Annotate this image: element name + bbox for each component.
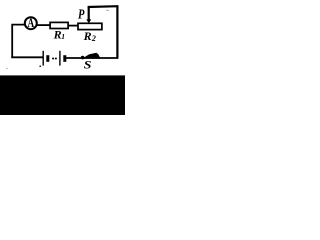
svg-text:R: R [83,29,92,43]
svg-text:2: 2 [91,34,96,43]
svg-text:S: S [84,57,92,71]
svg-text:P: P [78,6,85,22]
svg-text:1: 1 [61,32,65,41]
svg-text:A: A [27,17,34,31]
svg-text:R: R [53,27,62,41]
